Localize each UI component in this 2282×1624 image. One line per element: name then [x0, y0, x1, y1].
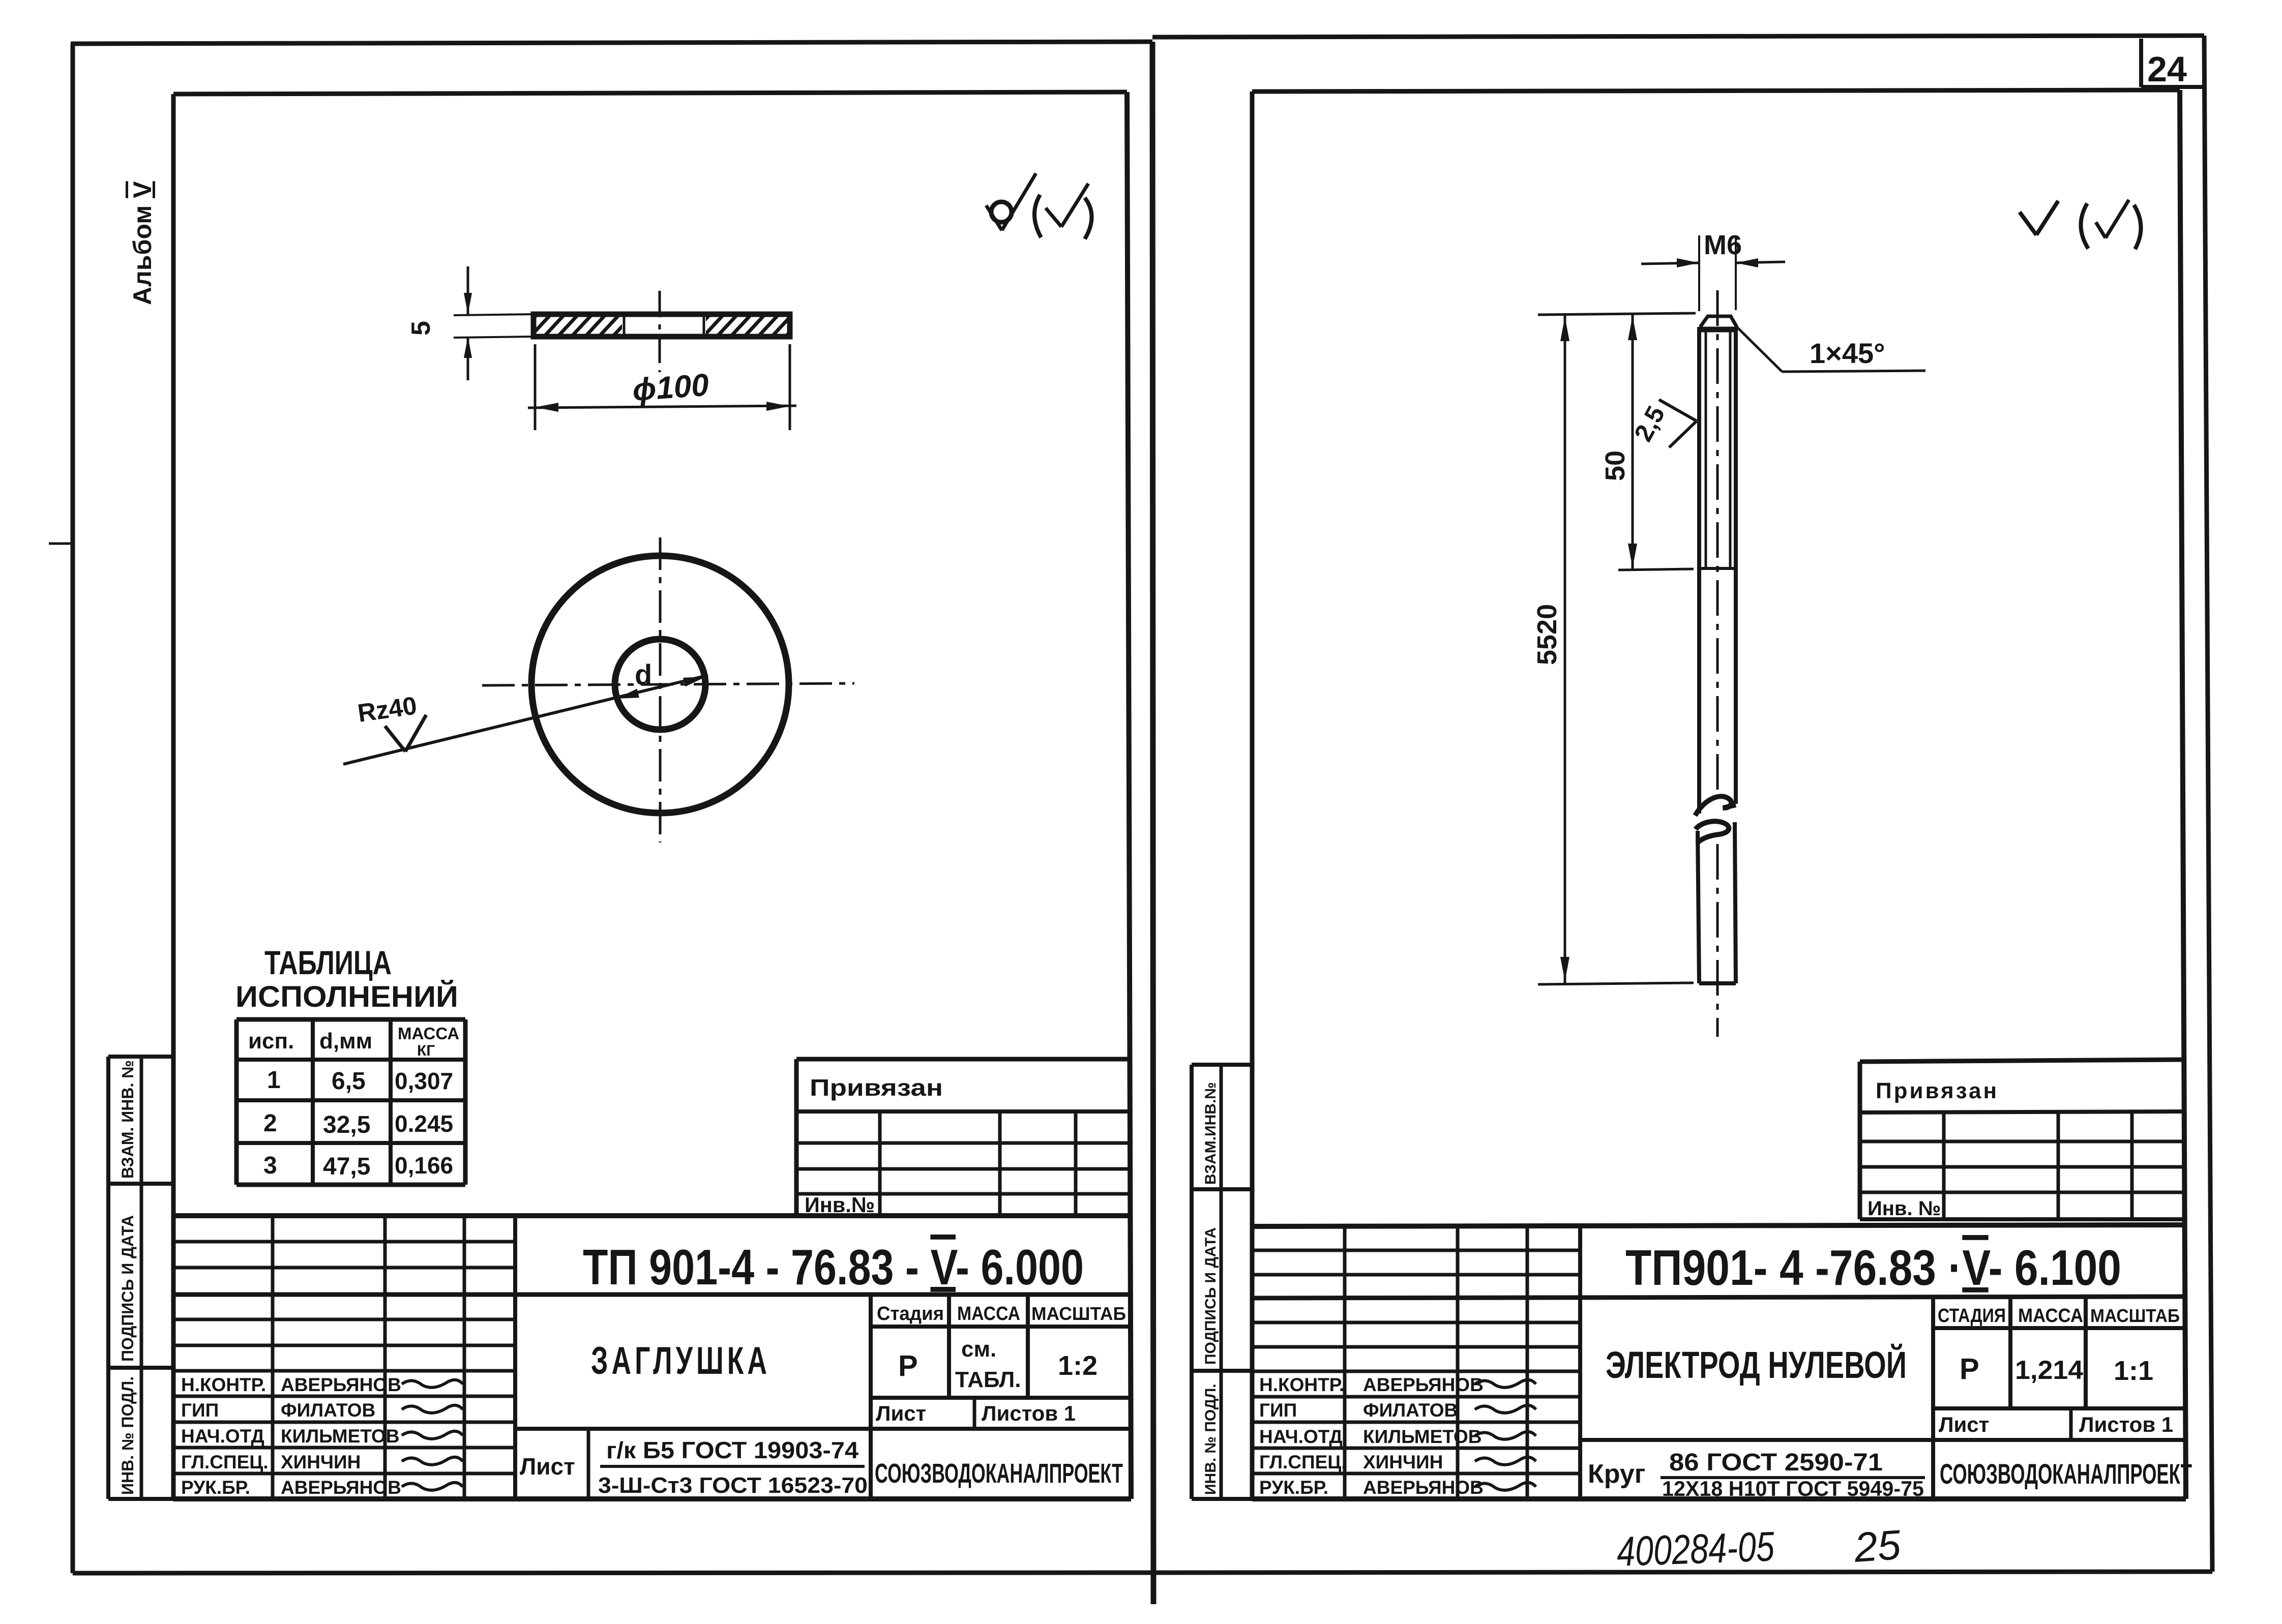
right sheet margin strip boxes	[1192, 1065, 1252, 1499]
right title block grid	[1252, 1225, 2186, 1499]
svg-text:3: 3	[263, 1152, 277, 1179]
svg-text:СОЮЗВОДОКАНАЛПРОЕКТ: СОЮЗВОДОКАНАЛПРОЕКТ	[875, 1458, 1123, 1489]
diameter d leader line	[343, 675, 708, 764]
svg-text:ПОДПИСЬ И ДАТА: ПОДПИСЬ И ДАТА	[1202, 1227, 1219, 1365]
svg-text:Привязан: Привязан	[810, 1074, 943, 1101]
washer section view outline	[534, 314, 790, 337]
svg-text:ХИНЧИН: ХИНЧИН	[1363, 1452, 1443, 1472]
fold tick left margin	[49, 543, 73, 545]
rod right edge	[1734, 327, 1738, 804]
svg-text:ГЛ.СПЕЦ.: ГЛ.СПЕЦ.	[181, 1452, 269, 1472]
svg-text:2: 2	[263, 1110, 277, 1137]
svg-text:12Х18 Н10Т ГОСТ 5949-75: 12Х18 Н10Т ГОСТ 5949-75	[1662, 1477, 1924, 1500]
svg-text:Р: Р	[1960, 1352, 1979, 1386]
svg-text:d: d	[635, 658, 652, 690]
rod chamfer top	[1700, 316, 1737, 327]
svg-text:3-Ш-Ст3 ГОСТ 16523-70: 3-Ш-Ст3 ГОСТ 16523-70	[598, 1473, 868, 1498]
signature rows left	[181, 1374, 463, 1498]
dimension 50	[1618, 569, 1694, 570]
svg-text:КИЛЬМЕТОВ: КИЛЬМЕТОВ	[281, 1426, 400, 1447]
svg-text:0,307: 0,307	[395, 1068, 453, 1094]
svg-text:АВЕРЬЯНОВ: АВЕРЬЯНОВ	[1363, 1477, 1484, 1498]
surface finish checks right sheet	[2020, 200, 2141, 249]
svg-text:ИНВ. № ПОДЛ.: ИНВ. № ПОДЛ.	[118, 1376, 137, 1495]
right sheet outer border	[1152, 36, 2204, 37]
svg-text:РУК.БР.: РУК.БР.	[1259, 1477, 1328, 1498]
svg-text:ИСПОЛНЕНИЙ: ИСПОЛНЕНИЙ	[235, 980, 458, 1013]
left sheet inner frame	[171, 94, 176, 1499]
svg-text:1:1: 1:1	[2114, 1356, 2153, 1386]
svg-text:ϕ100: ϕ100	[631, 368, 710, 408]
1x45 chamfer note	[1737, 327, 1782, 372]
svg-text:24: 24	[2147, 49, 2187, 89]
svg-text:см.: см.	[961, 1337, 996, 1362]
svg-text:1,214: 1,214	[2015, 1356, 2083, 1385]
svg-text:ЭЛЕКТРОД НУЛЕВОЙ: ЭЛЕКТРОД НУЛЕВОЙ	[1606, 1343, 1907, 1386]
right sheet inner frame	[1250, 92, 1255, 1499]
svg-text:АВЕРЬЯНОВ: АВЕРЬЯНОВ	[1363, 1374, 1484, 1395]
M6 dimension	[1698, 235, 1700, 311]
svg-text:25: 25	[1852, 1522, 1903, 1571]
svg-text:СТАДИЯ: СТАДИЯ	[1938, 1305, 2006, 1327]
svg-text:1×45°: 1×45°	[1810, 337, 1885, 369]
svg-text:Инв.№: Инв.№	[805, 1193, 875, 1217]
dimension 5 (thickness)	[454, 314, 532, 315]
svg-text:г/к Б5 ГОСТ 19903-74: г/к Б5 ГОСТ 19903-74	[606, 1437, 858, 1463]
rod bottom edge	[1699, 981, 1736, 985]
svg-text:МАСШТАБ: МАСШТАБ	[1031, 1303, 1126, 1324]
svg-text:ГЛ.СПЕЦ.: ГЛ.СПЕЦ.	[1259, 1452, 1347, 1472]
svg-text:М6: М6	[1704, 230, 1742, 260]
svg-text:47,5: 47,5	[323, 1153, 370, 1180]
svg-text:ГИП: ГИП	[1259, 1400, 1297, 1421]
svg-text:исп.: исп.	[248, 1029, 294, 1054]
svg-text:СОЮЗВОДОКАНАЛПРОЕКТ: СОЮЗВОДОКАНАЛПРОЕКТ	[1940, 1458, 2192, 1490]
rod left edge	[1697, 327, 1701, 814]
svg-text:КИЛЬМЕТОВ: КИЛЬМЕТОВ	[1363, 1426, 1482, 1447]
svg-text:32,5: 32,5	[323, 1111, 370, 1138]
thread depth lines	[1705, 332, 1707, 567]
svg-text:АВЕРЬЯНОВ: АВЕРЬЯНОВ	[281, 1477, 401, 1498]
svg-text:ТАБЛ.: ТАБЛ.	[955, 1367, 1021, 1392]
svg-text:5: 5	[406, 321, 436, 336]
svg-text:ФИЛАТОВ: ФИЛАТОВ	[281, 1400, 375, 1421]
svg-text:МАСШТАБ: МАСШТАБ	[2090, 1305, 2180, 1326]
section view centerline	[659, 291, 661, 372]
svg-text:ТАБЛИЦА: ТАБЛИЦА	[264, 944, 392, 981]
binding table (Привязан) left sheet	[796, 1059, 1131, 1216]
svg-text:Круг: Круг	[1588, 1459, 1645, 1489]
versions table texts	[248, 1024, 459, 1180]
dimension phi100	[534, 344, 537, 430]
svg-text:1:2: 1:2	[1058, 1350, 1098, 1381]
svg-text:РУК.БР.: РУК.БР.	[181, 1477, 250, 1498]
svg-text:ИНВ. № ПОДЛ.: ИНВ. № ПОДЛ.	[1202, 1384, 1219, 1495]
svg-text:Листов 1: Листов 1	[982, 1401, 1076, 1425]
svg-text:ВЗАМ.ИНВ.№: ВЗАМ.ИНВ.№	[1202, 1082, 1219, 1185]
vertical centerline	[659, 537, 662, 843]
left sheet outer border	[71, 44, 75, 1573]
svg-text:Альбом V: Альбом V	[128, 181, 157, 305]
svg-text:6,5: 6,5	[332, 1068, 366, 1095]
svg-text:НАЧ.ОТД: НАЧ.ОТД	[181, 1426, 264, 1447]
svg-text:Привязан: Привязан	[1876, 1078, 1999, 1103]
washer outer circle	[531, 556, 789, 813]
svg-text:Инв. №: Инв. №	[1868, 1197, 1941, 1220]
svg-text:МАССА: МАССА	[957, 1303, 1020, 1325]
svg-text:50: 50	[1600, 450, 1631, 481]
2,5 thread pitch note	[1659, 400, 1697, 421]
svg-text:Стадия: Стадия	[877, 1303, 944, 1325]
svg-text:400284-05: 400284-05	[1616, 1523, 1775, 1575]
svg-text:ФИЛАТОВ: ФИЛАТОВ	[1363, 1400, 1458, 1421]
horizontal centerline	[482, 683, 854, 685]
svg-text:МАССА: МАССА	[2018, 1305, 2083, 1327]
rod break marks	[1695, 796, 1736, 816]
page number box 24	[2139, 39, 2143, 87]
svg-text:5520: 5520	[1532, 604, 1562, 665]
svg-text:Н.КОНТР.: Н.КОНТР.	[181, 1374, 266, 1395]
svg-text:Листов 1: Листов 1	[2079, 1412, 2173, 1436]
thread end line	[1699, 567, 1736, 570]
svg-text:86 ГОСТ 2590-71: 86 ГОСТ 2590-71	[1669, 1449, 1883, 1476]
svg-text:ХИНЧИН: ХИНЧИН	[281, 1452, 361, 1472]
svg-text:ЗАГЛУШКА: ЗАГЛУШКА	[591, 1339, 770, 1382]
svg-text:НАЧ.ОТД: НАЧ.ОТД	[1259, 1426, 1343, 1447]
sheet divider line	[1152, 42, 1153, 1604]
washer inner circle (hole d)	[615, 639, 705, 730]
rod centerline	[1716, 290, 1719, 793]
svg-text:Р: Р	[898, 1349, 918, 1382]
roughness mark (left sheet, top right): check with circle + (check)	[986, 173, 1092, 239]
svg-text:ТП 901-4 - 76.83 - V- 6.000: ТП 901-4 - 76.83 - V- 6.000	[583, 1239, 1084, 1295]
left title block grid	[173, 1216, 1131, 1499]
svg-text:Лист: Лист	[876, 1401, 926, 1425]
svg-text:Лист: Лист	[1939, 1412, 1989, 1436]
signature rows right	[1259, 1374, 1536, 1498]
washer hole edge lines	[623, 314, 626, 337]
left margin strip boxes	[108, 1057, 173, 1499]
svg-text:МАССА: МАССА	[398, 1024, 459, 1043]
svg-text:0,166: 0,166	[395, 1152, 453, 1179]
svg-text:КГ: КГ	[417, 1042, 435, 1059]
svg-text:Н.КОНТР.: Н.КОНТР.	[1259, 1374, 1344, 1395]
svg-text:0.245: 0.245	[395, 1110, 453, 1137]
svg-text:ГИП: ГИП	[181, 1400, 219, 1421]
svg-text:АВЕРЬЯНОВ: АВЕРЬЯНОВ	[281, 1374, 401, 1395]
svg-text:ВЗАМ. ИНВ. №: ВЗАМ. ИНВ. №	[118, 1060, 137, 1179]
svg-text:Лист: Лист	[520, 1453, 575, 1480]
svg-text:ТП901- 4 -76.83 ·V- 6.100: ТП901- 4 -76.83 ·V- 6.100	[1625, 1240, 2121, 1296]
binding table (Привязан) right sheet	[1860, 1060, 2183, 1219]
dimension 5520	[1538, 313, 1696, 315]
svg-text:1: 1	[267, 1067, 281, 1094]
versions table grid	[236, 1019, 465, 1185]
hatching right part	[687, 311, 823, 340]
svg-text:d,мм: d,мм	[319, 1029, 372, 1054]
svg-text:ПОДПИСЬ И ДАТА: ПОДПИСЬ И ДАТА	[118, 1215, 137, 1362]
